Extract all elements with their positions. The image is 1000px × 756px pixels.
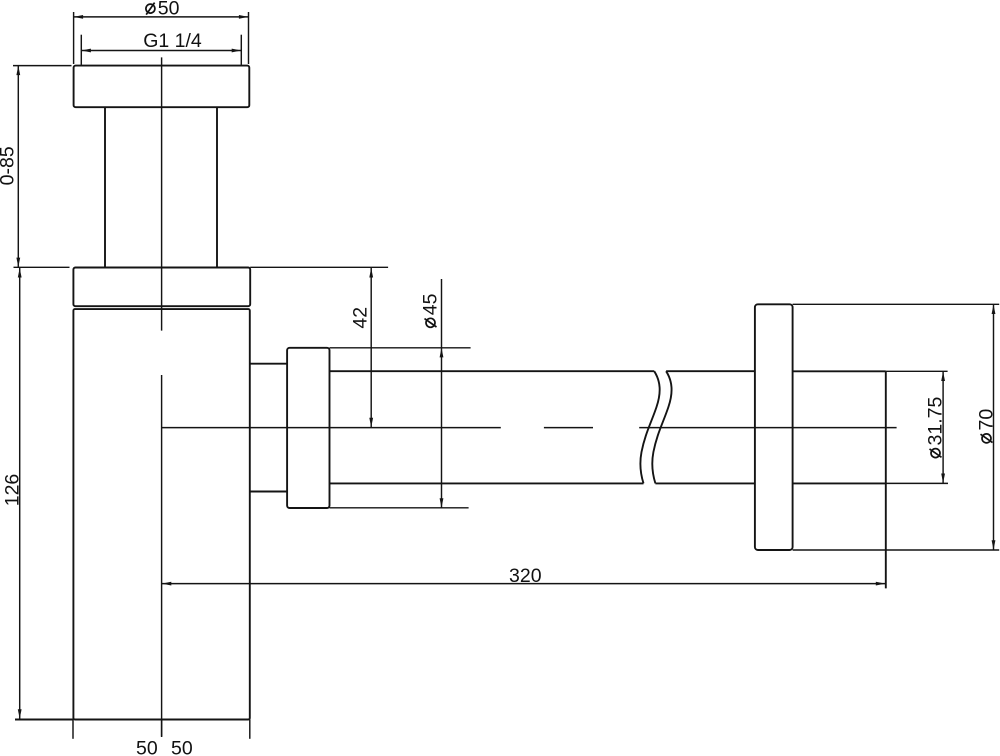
pipe break curve right [652,371,671,483]
0-85 extension top [13,65,72,67]
dia50 extension right [248,12,250,64]
dia70 label [976,409,998,443]
wall flange plate [755,304,793,550]
dia50 extension left [73,12,75,64]
svg-text:126: 126 [2,474,24,507]
extension below body right [249,720,251,739]
dia31.75 dimension line [942,372,944,484]
body vertical centerline upper [161,57,163,330]
svg-text:320: 320 [509,565,542,587]
pipe horizontal centerline seg3 [639,427,896,429]
dia31.75 label [925,396,947,457]
42 dimension line [370,268,372,427]
pipe horizontal centerline seg1 [162,427,501,429]
svg-text:50: 50 [171,738,193,756]
horizontal pipe top right segment [666,370,755,372]
outlet stub top [250,363,287,365]
320 dimension line [162,583,886,585]
svg-text:42: 42 [349,307,371,329]
svg-text:50: 50 [158,0,180,20]
extension below body centre [161,720,163,738]
outlet stub bottom [250,491,287,493]
svg-text:45: 45 [420,293,442,315]
extension below body left [72,720,74,739]
wall socket bottom [793,482,886,484]
dia45 extension top [330,347,471,349]
collar top right extension (for 42) [250,266,388,268]
shared extension line at collar top left [14,266,70,268]
svg-text:50: 50 [136,738,158,756]
dia70 extension bottom [793,549,1000,551]
dia50 label [146,0,180,20]
dia31.75 extension top [886,370,948,372]
body vertical centerline lower [161,375,163,737]
G1 1/4 dimension line [81,50,241,52]
pipe horizontal centerline seg2 [544,427,593,429]
pipe break curve left [640,371,659,483]
svg-text:31.75: 31.75 [925,396,947,445]
dia45 extension bottom [330,507,469,509]
svg-text:70: 70 [976,409,998,431]
126 dimension line [19,268,21,719]
dia70 dimension line [993,305,995,550]
horizontal pipe bottom right segment [655,482,755,484]
body bottom left extension [15,719,73,721]
wall socket top [793,370,886,372]
dia45 dimension line [441,279,443,508]
horizontal pipe bottom left segment [330,482,644,484]
0-85 dimension line [17,66,19,268]
coupling nut [287,348,329,508]
dia50 dimension line [74,16,249,18]
trap body [73,309,249,719]
dia31.75 extension bottom [886,482,948,484]
vertical pipe left edge [104,107,106,267]
vertical pipe right edge [216,107,218,267]
horizontal pipe top left segment [330,370,655,372]
body collar [73,268,250,307]
G1 1/4 extension left [80,35,82,65]
wall socket right edge and 320 extension [885,371,887,588]
svg-text:G1 1/4: G1 1/4 [143,30,202,52]
dia70 extension top [793,303,1000,305]
G1 1/4 extension right [240,35,242,65]
dia45 label [420,293,442,327]
top flange (tailpiece nut) [74,66,250,108]
svg-text:0-85: 0-85 [0,146,19,185]
